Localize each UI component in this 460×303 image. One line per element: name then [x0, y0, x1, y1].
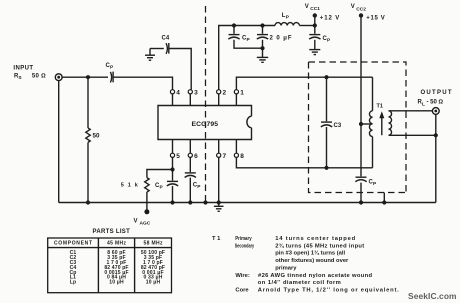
svg-text:10 μH: 10 μH — [109, 280, 124, 286]
svg-text:C3: C3 — [334, 123, 342, 129]
svg-text:- 50 Ω: - 50 Ω — [427, 100, 444, 106]
svg-text:Lp: Lp — [70, 280, 76, 286]
svg-text:10 μH: 10 μH — [146, 280, 161, 286]
svg-text:L: L — [422, 101, 425, 107]
svg-text:CC2: CC2 — [356, 7, 366, 13]
svg-text:T 1: T 1 — [212, 236, 221, 242]
svg-text:on 1/4'' diameter coil form: on 1/4'' diameter coil form — [258, 280, 341, 286]
svg-text:5: 5 — [176, 153, 180, 160]
svg-text:50: 50 — [93, 132, 101, 139]
svg-text:V: V — [134, 219, 138, 225]
svg-text:V: V — [305, 4, 309, 10]
svg-text:Arnold Type TH, 1/2'' long or: Arnold Type TH, 1/2'' long or equivalent… — [258, 288, 399, 294]
svg-text:6: 6 — [194, 153, 198, 160]
svg-text:C4: C4 — [162, 36, 170, 42]
svg-text:4: 4 — [176, 89, 180, 96]
svg-text:45 MHz: 45 MHz — [107, 241, 127, 247]
svg-text:14 turns center tapped: 14 turns center tapped — [275, 236, 355, 242]
svg-text:3: 3 — [194, 89, 198, 96]
svg-text:2 0 μF: 2 0 μF — [270, 36, 292, 42]
svg-text:Secondary: Secondary — [235, 243, 255, 249]
svg-text:V: V — [351, 4, 355, 10]
svg-text:other fixtures) wound over: other fixtures) wound over — [275, 258, 349, 264]
svg-text:+15 V: +15 V — [366, 16, 385, 22]
svg-text:1: 1 — [240, 89, 244, 96]
svg-text:AGC: AGC — [140, 221, 151, 227]
svg-text:COMPONENT: COMPONENT — [54, 241, 92, 247]
svg-text:CC1: CC1 — [310, 6, 320, 12]
svg-text:58 MHz: 58 MHz — [144, 241, 164, 247]
svg-text:+12 V: +12 V — [320, 16, 340, 22]
svg-text:Wire:: Wire: — [235, 273, 250, 279]
svg-text:pin #3 open) 1¾ turns (all: pin #3 open) 1¾ turns (all — [275, 250, 345, 257]
svg-text:Primary: Primary — [235, 236, 252, 242]
svg-text:Core: Core — [235, 288, 249, 294]
svg-text:SeekIC.com: SeekIC.com — [408, 291, 457, 301]
svg-text:ECG795: ECG795 — [192, 121, 219, 128]
svg-text:50 Ω: 50 Ω — [32, 73, 46, 79]
svg-text:5 1 k: 5 1 k — [121, 183, 139, 189]
svg-text:7: 7 — [223, 153, 227, 160]
svg-text:#26 AWG tinned nylon acetate w: #26 AWG tinned nylon acetate wound — [258, 273, 372, 279]
svg-text:2¾ turns (45 MHz tuned input: 2¾ turns (45 MHz tuned input — [275, 242, 364, 249]
svg-text:PARTS LIST: PARTS LIST — [93, 229, 131, 235]
svg-text:primary: primary — [275, 265, 297, 271]
svg-text:2: 2 — [223, 89, 227, 96]
svg-text:8: 8 — [240, 153, 244, 160]
svg-text:INPUT: INPUT — [13, 66, 33, 72]
svg-text:T1: T1 — [377, 104, 383, 110]
